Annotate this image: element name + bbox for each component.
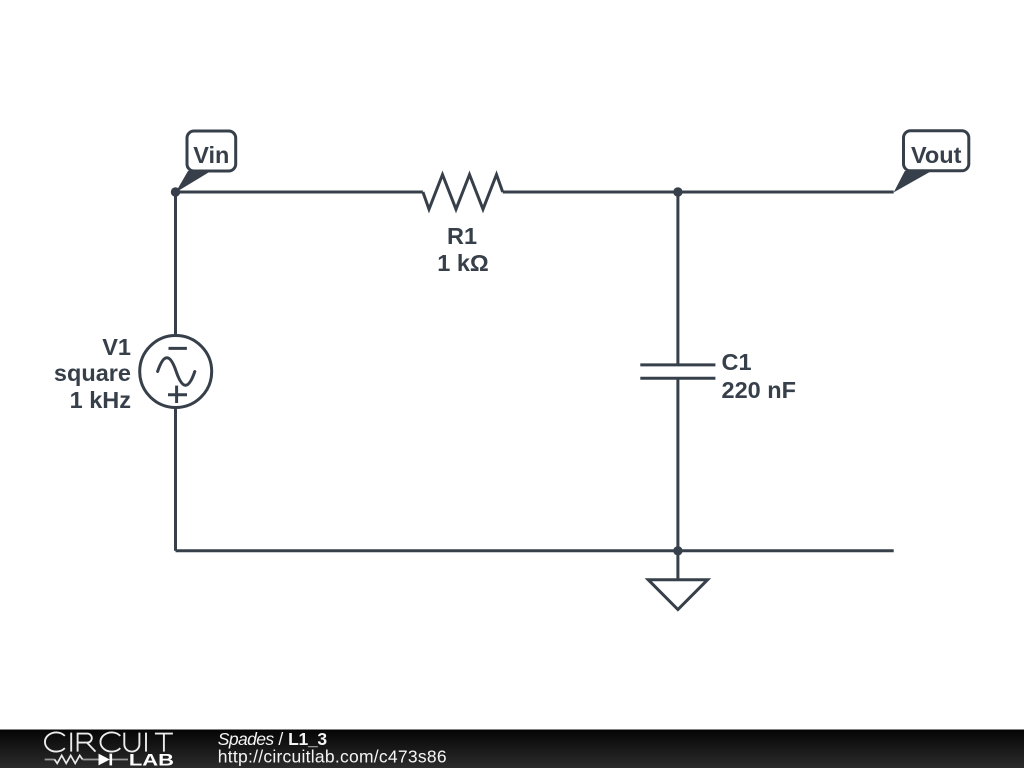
- svg-text:square: square: [54, 360, 131, 386]
- svg-text:V1: V1: [102, 334, 131, 360]
- svg-text:http://circuitlab.com/c473s86: http://circuitlab.com/c473s86: [218, 747, 447, 767]
- svg-text:Vout: Vout: [911, 142, 962, 168]
- svg-text:1 kΩ: 1 kΩ: [437, 250, 489, 276]
- svg-text:LAB: LAB: [129, 751, 174, 768]
- svg-text:R1: R1: [447, 223, 477, 249]
- svg-text:C1: C1: [722, 349, 752, 375]
- svg-text:220 nF: 220 nF: [722, 377, 796, 403]
- svg-text:Vin: Vin: [193, 142, 229, 168]
- svg-text:1 kHz: 1 kHz: [70, 387, 131, 413]
